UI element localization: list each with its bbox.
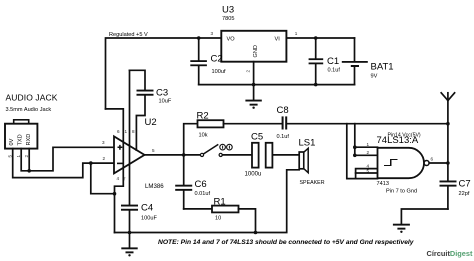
- svg-text:5: 5: [367, 168, 370, 173]
- capacitor C6: [175, 179, 210, 209]
- svg-text:R1: R1: [214, 197, 226, 208]
- wire regulated +5V top rail: [106, 38, 222, 109]
- capacitor C5: [245, 132, 273, 178]
- node junction R1 ground: [254, 231, 258, 235]
- antenna AE1: [441, 93, 454, 124]
- wire pin2 stub: [355, 154, 378, 156]
- svg-text:C4: C4: [141, 203, 153, 214]
- svg-text:AUDIO JACK: AUDIO JACK: [6, 93, 58, 103]
- node junction output: [182, 153, 186, 157]
- wire R1 to ground rail: [239, 209, 256, 233]
- svg-text:2: 2: [367, 150, 370, 155]
- svg-text:0.01uf: 0.01uf: [195, 191, 211, 197]
- capacitor C2: [190, 38, 226, 85]
- resistor R2: [197, 111, 224, 139]
- wire battery drop: [354, 38, 356, 61]
- battery BAT1: [342, 61, 394, 79]
- svg-text:100uf: 100uf: [212, 69, 226, 75]
- svg-text:VI: VI: [275, 37, 281, 43]
- svg-text:C1: C1: [327, 56, 339, 67]
- svg-text:C7: C7: [459, 179, 471, 190]
- svg-text:LS1: LS1: [299, 138, 316, 149]
- capacitor C1: [309, 38, 341, 85]
- wire R2 to C8: [224, 123, 282, 125]
- svg-text:6: 6: [117, 129, 120, 134]
- wire pin4 stub: [356, 169, 378, 179]
- node junction 0V/pin4: [113, 192, 117, 196]
- wire output up to R2: [184, 124, 198, 155]
- NAND gate U1 74LS13:A: [377, 132, 430, 194]
- svg-text:NOTE: Pin 14 and 7 of 74LS13 s: NOTE: Pin 14 and 7 of 74LS13 should be c…: [158, 239, 414, 246]
- svg-text:1: 1: [16, 155, 21, 158]
- wire pin1 stub: [355, 146, 378, 148]
- node junction jack signal: [27, 169, 31, 173]
- wire NAND input branch A (pins 4,5): [347, 124, 378, 179]
- capacitor C3: [130, 70, 172, 150]
- svg-text:1000u: 1000u: [245, 171, 262, 178]
- ground (top middle): [245, 85, 261, 109]
- capacitor C7: [440, 179, 471, 209]
- wire U3 output to rail: [286, 37, 354, 39]
- svg-text:3.5mm Audio Jack: 3.5mm Audio Jack: [6, 107, 52, 113]
- wire antenna rail down: [447, 124, 449, 181]
- resistor R1: [212, 197, 239, 222]
- svg-text:10: 10: [215, 216, 221, 222]
- wire NAND input branch B (pins 1,2): [354, 124, 356, 156]
- svg-text:2: 2: [103, 156, 106, 161]
- svg-text:3: 3: [211, 31, 214, 36]
- op-amp U2 LM386: [114, 117, 164, 190]
- node junction C1 top: [314, 36, 318, 40]
- wire op-amp output: [145, 154, 201, 156]
- wire C8 to antenna rail: [287, 123, 448, 125]
- svg-text:10k: 10k: [199, 133, 208, 139]
- wire jack pin1 down: [21, 147, 114, 171]
- node junction pin2: [353, 154, 357, 158]
- wire jack pin2 down: [28, 149, 30, 171]
- svg-text:5: 5: [152, 148, 155, 153]
- svg-text:U3: U3: [222, 5, 234, 16]
- node junction pin1: [353, 145, 357, 149]
- svg-text:LM386: LM386: [145, 183, 164, 190]
- wire C6 to R1: [184, 208, 212, 210]
- node junction antenna: [446, 122, 450, 126]
- node junction C1 bottom: [314, 83, 318, 87]
- svg-text:7413: 7413: [377, 181, 389, 187]
- svg-text:TXD: TXD: [17, 134, 23, 145]
- svg-text:0V: 0V: [9, 138, 15, 145]
- svg-text:Regulated +5 V: Regulated +5 V: [109, 32, 148, 38]
- svg-text:74LS13:A: 74LS13:A: [377, 135, 419, 146]
- svg-text:0.1uf: 0.1uf: [328, 67, 341, 73]
- wire pin2 node to 0V node: [91, 163, 115, 194]
- wire +5V to pin6 and pin4 through: [106, 109, 124, 233]
- svg-text:5: 5: [8, 155, 13, 158]
- svg-text:R2: R2: [197, 111, 209, 122]
- regulator U3 7805: [221, 5, 286, 62]
- svg-text:7805: 7805: [222, 16, 234, 22]
- wire switch to C5: [222, 154, 252, 156]
- svg-text:U2: U2: [145, 117, 157, 128]
- wire U3 GND pin: [253, 62, 255, 85]
- svg-text:0.1uf: 0.1uf: [277, 134, 290, 140]
- svg-text:GND: GND: [253, 45, 259, 57]
- svg-text:CírcuitDigest: CírcuitDigest: [427, 249, 474, 258]
- ground (right): [393, 224, 410, 233]
- wire NAND output: [429, 162, 448, 164]
- svg-text:C8: C8: [277, 105, 289, 116]
- svg-text:RXD: RXD: [26, 134, 32, 146]
- node junction U3 gnd: [252, 83, 256, 87]
- svg-text:Pin 7 to Gnd: Pin 7 to Gnd: [386, 188, 417, 194]
- svg-text:VO: VO: [227, 37, 236, 43]
- wire pin5 stub: [356, 172, 378, 174]
- wire top-section ground rail: [199, 84, 355, 86]
- svg-text:100uF: 100uF: [141, 215, 157, 221]
- svg-text:C2: C2: [211, 54, 223, 65]
- wire output down to C6: [183, 155, 185, 185]
- node junction C2 top: [197, 36, 201, 40]
- svg-text:1: 1: [295, 31, 298, 36]
- wire C7 to ground: [401, 209, 448, 224]
- svg-text:6: 6: [431, 156, 434, 161]
- svg-text:3: 3: [102, 140, 105, 145]
- svg-text:SPEAKER: SPEAKER: [300, 180, 325, 186]
- svg-text:4: 4: [117, 176, 120, 181]
- svg-text:22pf: 22pf: [459, 191, 470, 197]
- svg-text:2: 2: [246, 70, 251, 73]
- node junction output rail: [446, 161, 450, 165]
- ground (bottom left): [121, 233, 137, 257]
- svg-text:8: 8: [132, 129, 135, 134]
- wire pin1/pin7 vertical: [129, 70, 131, 205]
- audio jack J1: [5, 93, 58, 158]
- svg-text:C3: C3: [156, 87, 168, 98]
- svg-text:1: 1: [125, 129, 128, 134]
- wire jack pin5 0V down: [13, 149, 114, 178]
- wire bottom ground rail: [115, 170, 300, 233]
- node junction inverting input: [89, 161, 93, 165]
- svg-text:10uF: 10uF: [159, 99, 172, 105]
- capacitor C8: [277, 105, 290, 140]
- svg-text:2: 2: [24, 155, 29, 158]
- svg-text:9V: 9V: [371, 73, 378, 79]
- svg-text:BAT1: BAT1: [371, 62, 394, 73]
- svg-text:C5: C5: [251, 132, 263, 143]
- node junction C4 ground: [128, 231, 132, 235]
- switch SW1: [200, 144, 232, 156]
- capacitor C4: [121, 203, 157, 233]
- svg-text:C6: C6: [195, 179, 207, 190]
- svg-text:1: 1: [367, 142, 370, 147]
- speaker LS1: [299, 138, 325, 186]
- wire C5 to speaker: [272, 154, 299, 156]
